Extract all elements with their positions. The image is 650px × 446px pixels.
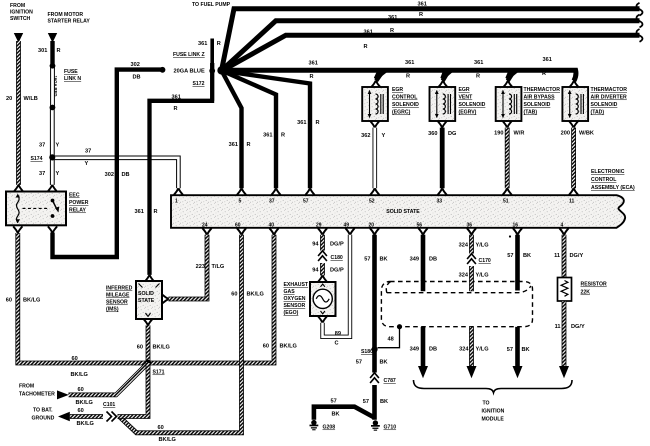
ECA bottom pin numbers 24 60 40 29 49 20 56 36 16 4 <box>202 223 564 229</box>
svg-text:Y/LG: Y/LG <box>476 273 489 279</box>
wire 20 W/LB ignition feed <box>16 41 21 185</box>
svg-text:SENSOR: SENSOR <box>284 303 306 309</box>
label FROM TACHOMETER <box>19 384 55 398</box>
svg-text:60: 60 <box>263 344 269 350</box>
svg-text:51: 51 <box>503 199 509 205</box>
wire fan to ECA pin 57 <box>222 71 310 189</box>
svg-text:33: 33 <box>437 199 443 205</box>
wire fan line 1 to fuel pump / 361 R top <box>222 9 640 71</box>
svg-text:CONTROL: CONTROL <box>392 95 417 101</box>
svg-text:BK/LG: BK/LG <box>247 292 264 298</box>
svg-text:29: 29 <box>316 223 322 229</box>
relay pin connector bottom-right <box>48 226 57 233</box>
label 20 W/LB <box>6 96 38 102</box>
TAD top connector <box>569 81 578 88</box>
IMS box <box>136 281 162 319</box>
solenoid EGRV box <box>430 87 456 121</box>
svg-text:W/R: W/R <box>514 131 525 137</box>
label 361 R near IMS <box>135 209 158 215</box>
arrow to battery ground <box>58 412 70 422</box>
svg-text:57: 57 <box>303 199 309 205</box>
svg-text:BK: BK <box>522 347 530 353</box>
label FROM MOTOR STARTER RELAY <box>48 12 91 25</box>
svg-text:324: 324 <box>459 243 469 249</box>
svg-text:DB: DB <box>429 257 437 263</box>
svg-text:BK/LG: BK/LG <box>159 437 176 443</box>
svg-text:361: 361 <box>263 133 272 139</box>
svg-text:89: 89 <box>335 331 341 337</box>
splice S171 <box>145 360 151 366</box>
wire 200 W/BK TAD to pin 11 <box>571 128 576 189</box>
label INFERRED MILEAGE SENSOR (IMS) <box>106 286 133 313</box>
label 361 R bus segment 3 <box>474 60 483 80</box>
label 361 R on pin57 fan wire <box>297 120 319 126</box>
svg-text:361: 361 <box>229 142 238 148</box>
svg-text:R: R <box>364 44 368 50</box>
svg-text:SOLENOID: SOLENOID <box>524 102 551 108</box>
svg-text:G208: G208 <box>323 425 336 431</box>
svg-text:60: 60 <box>231 292 237 298</box>
footnote dot near pin 16 <box>509 235 511 237</box>
svg-text:FROM: FROM <box>19 384 34 390</box>
svg-text:Y: Y <box>56 171 60 177</box>
label 349 DB lower <box>410 347 437 353</box>
svg-text:DG/Y: DG/Y <box>571 324 585 330</box>
wire fan to ECA pin 37 <box>222 71 277 189</box>
svg-text:BK/LG: BK/LG <box>77 421 94 427</box>
splice dot above fuse link N <box>50 63 56 69</box>
svg-text:R: R <box>310 74 314 80</box>
svg-text:TO: TO <box>483 401 490 407</box>
svg-text:SENSOR: SENSOR <box>106 300 128 306</box>
svg-text:EGR: EGR <box>392 87 403 93</box>
svg-text:ELECTRONIC: ELECTRONIC <box>591 169 625 175</box>
svg-text:361: 361 <box>309 60 318 66</box>
label 361 R bus segment 4 <box>542 57 552 77</box>
EGO bottom connector <box>318 316 327 323</box>
svg-text:BK: BK <box>332 412 340 418</box>
svg-text:BK: BK <box>380 399 388 405</box>
label 361 R at stub <box>198 41 221 47</box>
svg-text:G710: G710 <box>384 425 397 431</box>
label EGR CONTROL SOLENOID (EGRC) <box>392 87 419 116</box>
svg-text:302: 302 <box>131 62 140 68</box>
svg-text:361: 361 <box>388 15 397 21</box>
svg-text:EXHAUST: EXHAUST <box>284 282 309 288</box>
label 190 W/R <box>494 131 524 137</box>
connector into IMS right side <box>162 294 169 303</box>
label 57 BK lower <box>507 347 530 353</box>
svg-text:R: R <box>390 28 394 34</box>
wire 37 Y from S174 to EEC relay <box>50 159 55 185</box>
svg-text:11: 11 <box>569 199 575 205</box>
svg-text:R: R <box>316 120 320 126</box>
svg-text:R: R <box>217 41 221 47</box>
svg-text:GAS: GAS <box>284 289 296 295</box>
ground G710 <box>371 420 380 430</box>
svg-text:LINK N: LINK N <box>64 76 81 82</box>
svg-text:Y: Y <box>56 143 60 149</box>
svg-text:361: 361 <box>418 1 427 7</box>
svg-text:190: 190 <box>494 131 503 137</box>
label 57 BK at pin 20 <box>364 257 387 263</box>
label 361 R on line 2 <box>388 12 423 21</box>
label 57 BK pin 16 <box>507 253 531 259</box>
svg-text:SOLENOID: SOLENOID <box>459 102 486 108</box>
wire 57 BK pin 16 down <box>515 235 520 281</box>
ECA bottom pin connectors <box>202 228 568 235</box>
svg-text:BK/LG: BK/LG <box>153 345 170 351</box>
label FROM IGNITION SWITCH <box>10 3 33 22</box>
svg-text:361: 361 <box>172 94 181 100</box>
svg-text:(EGO): (EGO) <box>284 310 299 316</box>
svg-text:BK/LG: BK/LG <box>71 372 88 378</box>
wire fan line 3 361 R <box>222 35 640 71</box>
arrow 349 DB to ignition module <box>418 366 428 378</box>
svg-text:R: R <box>154 209 158 215</box>
wire 11 DG/Y below resistor <box>562 301 567 367</box>
label 361 R bus segment 2 <box>405 60 414 80</box>
svg-text:R: R <box>542 71 546 77</box>
label 302 DB upper <box>131 62 141 81</box>
wire 57 BK crossing shield lip <box>515 280 520 367</box>
break symbol end line 2 <box>637 15 643 28</box>
svg-text:Y/LG: Y/LG <box>476 347 489 353</box>
wire 60 BK/LG pin 60 down through junction to bottom run <box>120 235 242 433</box>
svg-text:Y: Y <box>85 161 89 167</box>
svg-text:C170: C170 <box>479 258 491 264</box>
svg-text:324: 324 <box>459 347 469 353</box>
label 361 R at elbow <box>172 94 181 112</box>
svg-text:S171: S171 <box>153 370 165 376</box>
arrow from tachometer <box>57 390 69 399</box>
svg-text:20: 20 <box>6 96 12 102</box>
svg-text:16: 16 <box>513 223 519 229</box>
ECA top pin connectors <box>174 188 578 195</box>
connector C170 <box>465 254 478 267</box>
svg-text:20GA BLUE: 20GA BLUE <box>174 69 205 75</box>
svg-text:FUSE: FUSE <box>64 69 78 75</box>
bus fork to TAB <box>508 70 515 81</box>
svg-text:BK/LG: BK/LG <box>23 298 40 304</box>
splice dot below fuse link N <box>50 105 56 111</box>
shield drain dot <box>397 324 402 329</box>
label 324 Y/LG below C170 <box>459 273 489 279</box>
label 349 DB upper <box>410 257 437 263</box>
fuse link N wire 16GA RED <box>50 66 55 107</box>
svg-text:FROM MOTOR: FROM MOTOR <box>48 12 84 18</box>
wire 361 R down to IMS <box>150 63 215 275</box>
ECA top pin numbers 1 5 37 57 52 33 51 11 <box>175 199 575 205</box>
splice blob S172 fan origin <box>217 66 225 74</box>
svg-text:57: 57 <box>331 399 337 405</box>
svg-text:361: 361 <box>543 57 552 63</box>
svg-text:SWITCH: SWITCH <box>10 16 31 22</box>
svg-text:RESISTOR: RESISTOR <box>581 282 607 288</box>
svg-text:57: 57 <box>507 347 513 353</box>
svg-text:57: 57 <box>364 257 370 263</box>
splice dots repaint <box>50 63 56 69</box>
svg-text:R: R <box>419 12 423 18</box>
label 361 R on line 3 <box>364 28 395 50</box>
solenoid EGRC box <box>362 87 388 121</box>
svg-text:MODULE: MODULE <box>482 417 505 423</box>
svg-text:324: 324 <box>459 273 469 279</box>
svg-text:MILEAGE: MILEAGE <box>106 293 130 299</box>
arrow from motor starter relay <box>48 33 57 43</box>
splice dot fuse link Z left <box>160 67 166 73</box>
svg-text:EGR: EGR <box>459 87 470 93</box>
wire 349 DB pin 56 down <box>421 235 426 281</box>
label 37 Y lower <box>39 171 60 177</box>
svg-text:49: 49 <box>344 223 350 229</box>
TAB top connector <box>503 81 512 88</box>
svg-text:W/BK: W/BK <box>579 131 594 137</box>
svg-text:94: 94 <box>312 268 319 274</box>
svg-text:20: 20 <box>369 223 375 229</box>
label 57 BK branch <box>331 399 340 418</box>
label 60 BK/LG left vertical <box>6 298 41 304</box>
svg-text:(EGRC): (EGRC) <box>392 110 411 116</box>
solenoid TAB box <box>496 87 522 121</box>
EGRC top connector <box>371 81 380 88</box>
connector C180 <box>316 251 329 264</box>
label 11 DG/Y lower <box>555 324 585 330</box>
wire 361 R stub above S172 <box>210 39 214 102</box>
svg-text:60: 60 <box>6 298 12 304</box>
wire fan line 2 361 R <box>222 21 640 71</box>
label 223 T/LG <box>196 264 225 270</box>
wire 11 DG/Y pin 4 to resistor <box>562 235 567 278</box>
svg-text:POWER: POWER <box>69 200 89 206</box>
label 37 / Y on horizontal wire <box>85 148 92 166</box>
label 94 DG/P upper <box>312 242 344 248</box>
arrow 57 BK to ignition module <box>513 366 523 378</box>
resistor 22K box <box>558 278 572 302</box>
label 60 BK/LG pin60 <box>231 292 264 298</box>
wire 60 BK/LG S171 to tachometer <box>69 363 149 395</box>
svg-text:360: 360 <box>428 131 437 137</box>
shield drain wire 48 to S180 <box>378 327 400 348</box>
svg-text:60: 60 <box>78 408 84 414</box>
label THERMACTOR AIR BYPASS SOLENOID (TAB) <box>524 87 561 116</box>
wire 223 T/LG pin 24 to IMS <box>169 235 208 299</box>
svg-text:57: 57 <box>363 399 369 405</box>
svg-text:TO BAT.: TO BAT. <box>33 408 53 414</box>
svg-text:IGNITION: IGNITION <box>482 409 505 415</box>
wire 60 BK/LG IMS to S171 <box>146 325 151 363</box>
svg-text:BK: BK <box>380 257 388 263</box>
label 361 R on pin5 fan wire <box>229 142 251 148</box>
break symbol end line 3 <box>637 29 643 42</box>
svg-text:VENT: VENT <box>459 95 474 101</box>
ground G208 <box>310 420 319 430</box>
svg-text:SOLENOID: SOLENOID <box>392 102 419 108</box>
svg-text:SOLENOID: SOLENOID <box>591 102 618 108</box>
svg-text:Y: Y <box>382 133 386 139</box>
svg-text:INFERRED: INFERRED <box>106 286 133 292</box>
svg-text:11: 11 <box>555 324 561 330</box>
svg-text:STATE: STATE <box>138 298 155 304</box>
ring around hub dot <box>207 66 217 76</box>
svg-text:IGNITION: IGNITION <box>10 9 33 15</box>
svg-text:FROM: FROM <box>10 3 25 9</box>
label 301 R <box>38 48 61 54</box>
EGRV bottom connector <box>438 121 447 128</box>
label ELECTRONIC CONTROL ASSEMBLY (ECA) <box>591 169 635 191</box>
svg-text:56: 56 <box>417 223 423 229</box>
svg-text:BK: BK <box>523 253 531 259</box>
svg-text:RELAY: RELAY <box>69 208 87 214</box>
label 60 BK/LG on horizontal left of S171 <box>71 356 88 378</box>
arrow 11 DG/Y to ignition module <box>559 366 569 378</box>
splice S180 <box>371 346 377 352</box>
wire 57 BK branch to G208 <box>314 407 375 420</box>
ECA solid state band <box>171 195 625 228</box>
svg-text:DG/P: DG/P <box>330 268 344 274</box>
svg-text:TO FUEL PUMP: TO FUEL PUMP <box>192 2 231 8</box>
svg-text:BK: BK <box>380 360 388 366</box>
svg-text:24: 24 <box>202 223 208 229</box>
TAB bottom connector <box>503 121 512 128</box>
arrow 324 Y/LG to ignition module <box>467 366 477 378</box>
EGRV top connector <box>438 81 447 88</box>
svg-text:37: 37 <box>269 199 275 205</box>
svg-text:361: 361 <box>364 29 373 35</box>
label 57 BK below C787 <box>363 399 388 405</box>
svg-text:48: 48 <box>388 337 394 343</box>
label THERMACTOR AIR DIVERTER SOLENOID (TAD) <box>591 87 628 116</box>
svg-text:361: 361 <box>135 209 144 215</box>
label 60 BK/LG on S171 down wire <box>158 381 164 387</box>
label 324 Y/LG lower <box>459 347 488 353</box>
connector C101 <box>103 410 118 424</box>
svg-text:R: R <box>174 106 178 112</box>
svg-text:37: 37 <box>39 143 45 149</box>
label 60 BK/LG IMS-S171 <box>137 345 170 351</box>
svg-text:5: 5 <box>239 199 242 205</box>
svg-text:57: 57 <box>356 360 362 366</box>
svg-text:60: 60 <box>235 223 241 229</box>
wire 37 Y from S174 to ECA pin 1 <box>52 158 178 188</box>
label 361 R bus segment 1 <box>309 60 318 80</box>
svg-text:301: 301 <box>38 48 47 54</box>
svg-text:FUSE LINK Z: FUSE LINK Z <box>173 52 205 58</box>
svg-text:THERMACTOR: THERMACTOR <box>591 87 628 93</box>
wire 60 BK/LG from relay to S171 horizontal and up to pin 40 <box>18 233 274 363</box>
svg-text:361: 361 <box>405 60 414 66</box>
wire 89 EGO loop to pin 49 <box>323 235 351 337</box>
svg-text:52: 52 <box>369 199 375 205</box>
label TO BAT. GROUND <box>32 408 55 422</box>
label 57 BK below S180 <box>356 360 388 366</box>
svg-text:1: 1 <box>175 199 178 205</box>
wire 57 BK pin 20 down to G710 <box>372 235 377 420</box>
wire fan to ECA pin 5 <box>222 71 242 189</box>
arrow from ignition switch <box>14 33 23 43</box>
svg-text:94: 94 <box>312 242 319 248</box>
relay pin connector top-left <box>14 185 23 192</box>
svg-text:EEC: EEC <box>69 193 80 199</box>
solenoid TAD box <box>562 87 588 121</box>
EEC power relay box <box>6 192 66 226</box>
splice S174 dot repaint <box>49 155 55 161</box>
label 94 DG/P lower <box>312 268 344 274</box>
hub dot on 361 bar <box>209 68 215 74</box>
svg-text:OXYGEN: OXYGEN <box>284 296 306 302</box>
shield capsule dashed <box>381 282 532 327</box>
svg-text:36: 36 <box>467 223 473 229</box>
label 324 Y/LG upper <box>459 243 489 249</box>
svg-text:200: 200 <box>561 131 570 137</box>
svg-text:361: 361 <box>297 120 306 126</box>
label 60 BK/LG bottom run <box>158 425 176 443</box>
wire 190 W/R TAB to pin 51 <box>505 128 510 189</box>
label 60 BK/LG at pin 40 elbow <box>263 344 297 350</box>
svg-text:(TAD): (TAD) <box>591 110 605 116</box>
svg-text:BK/LG: BK/LG <box>280 344 297 350</box>
connector C787 <box>368 373 381 386</box>
svg-text:60: 60 <box>78 387 84 393</box>
svg-text:AIR DIVERTER: AIR DIVERTER <box>591 95 628 101</box>
svg-text:16GA RED: 16GA RED <box>53 76 58 97</box>
svg-text:361: 361 <box>198 41 207 47</box>
svg-text:S174: S174 <box>31 156 43 162</box>
svg-text:(TAB): (TAB) <box>524 110 538 116</box>
svg-text:S180: S180 <box>361 349 373 355</box>
label 37 Y upper <box>39 143 60 149</box>
label 60 BK/LG bat ground <box>77 408 94 427</box>
svg-text:R: R <box>247 142 251 148</box>
svg-text:DG/P: DG/P <box>330 242 344 248</box>
wire 362 Y EGRC to pin 52 <box>372 128 377 189</box>
wire 60 BK/LG S171 down to C101 and battery ground <box>70 363 148 417</box>
label 302 DB mid <box>105 172 130 178</box>
svg-text:60: 60 <box>137 345 143 351</box>
svg-text:362: 362 <box>361 133 370 139</box>
svg-text:DB: DB <box>133 75 141 81</box>
svg-text:22K: 22K <box>581 290 591 296</box>
svg-text:37: 37 <box>39 171 45 177</box>
break symbol end line 1 <box>637 3 643 16</box>
label 360 DG <box>428 131 456 137</box>
relay pin connector bottom-left <box>13 226 22 233</box>
label TO IGNITION MODULE <box>482 401 505 423</box>
relay pin connector top-right <box>48 185 57 192</box>
svg-text:STARTER RELAY: STARTER RELAY <box>48 19 91 25</box>
svg-text:GROUND: GROUND <box>32 416 55 422</box>
wire 94 DG/P pin 29 to EGO <box>320 235 325 276</box>
label 362 Y <box>361 133 385 139</box>
svg-text:AIR BYPASS: AIR BYPASS <box>524 95 556 101</box>
wire 349 DB crossing shield lip <box>421 280 426 367</box>
svg-text:DB: DB <box>122 172 130 178</box>
wire 37 Y from fuse link N to S174 <box>50 108 55 156</box>
label 200 W/BK <box>561 131 594 137</box>
IMS bottom connector <box>143 319 152 326</box>
svg-text:BK/LG: BK/LG <box>76 400 93 406</box>
svg-text:60: 60 <box>72 356 78 362</box>
wire 324 Y/LG pin 36 down <box>469 235 474 281</box>
label EXHAUST GAS OXYGEN SENSOR (EGO) <box>284 282 309 316</box>
wire 301 R <box>50 41 54 64</box>
TAD bottom connector <box>569 121 578 128</box>
svg-text:ASSEMBLY (ECA): ASSEMBLY (ECA) <box>591 185 635 191</box>
svg-text:R: R <box>57 48 61 54</box>
splice S174 <box>49 154 55 160</box>
label fuse link N <box>64 69 81 82</box>
svg-text:(EGRV): (EGRV) <box>459 110 477 116</box>
